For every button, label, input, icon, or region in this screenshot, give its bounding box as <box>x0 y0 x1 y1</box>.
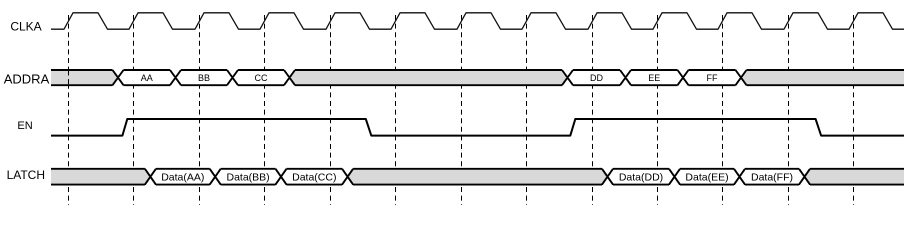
bus LATCH segment 8 (gray) fill <box>805 169 904 185</box>
bus ADDRA segment 7 (FF) fill <box>683 70 741 85</box>
gridline t11 <box>722 15 724 205</box>
bus LATCH segment 0 (gray) fill <box>51 169 150 185</box>
bus ADDRA outline <box>51 70 904 85</box>
bus LATCH segment 6 (Data(EE)) fill <box>675 169 740 185</box>
gridline t6 <box>395 15 397 205</box>
bus ADDRA segment 3 (CC) fill <box>233 70 290 85</box>
bus ADDRA segment 0 (gray) fill <box>51 70 118 85</box>
gridline t2 <box>133 15 135 205</box>
svg-text:EE: EE <box>648 73 660 83</box>
gridline t7 <box>461 15 463 205</box>
svg-text:ADDRA: ADDRA <box>4 71 50 86</box>
gridline t1 <box>68 15 70 205</box>
svg-text:AA: AA <box>141 73 153 83</box>
svg-text:Data(EE): Data(EE) <box>685 171 728 183</box>
svg-text:Data(AA): Data(AA) <box>161 171 204 183</box>
bus ADDRA segment 6 (EE) fill <box>626 70 684 85</box>
svg-text:CC: CC <box>255 73 268 83</box>
svg-text:Data(DD): Data(DD) <box>619 171 663 183</box>
gridline t13 <box>853 15 855 205</box>
gridline t8 <box>526 15 528 205</box>
svg-text:DD: DD <box>590 73 603 83</box>
gridline t12 <box>788 15 790 205</box>
svg-text:EN: EN <box>17 120 32 132</box>
svg-text:Data(FF): Data(FF) <box>751 171 793 183</box>
bus LATCH segment 1 (Data(AA)) fill <box>150 169 215 185</box>
waveform EN <box>51 119 904 136</box>
gridline t4 <box>264 15 266 205</box>
bus LATCH segment 7 (Data(FF)) fill <box>740 169 805 185</box>
bus ADDRA segment 8 (gray) fill <box>741 70 904 85</box>
bus LATCH segment 2 (Data(BB)) fill <box>215 169 281 185</box>
waveform CLKA clock <box>51 13 904 29</box>
gridline t5 <box>330 15 332 205</box>
gridline t10 <box>657 15 659 205</box>
svg-text:LATCH: LATCH <box>7 168 45 182</box>
bus ADDRA segment 5 (DD) fill <box>568 70 626 85</box>
gridline t9 <box>592 15 594 205</box>
bus LATCH segment 4 (gray) fill <box>348 169 608 185</box>
svg-text:FF: FF <box>707 73 718 83</box>
bus LATCH segment 3 (Data(CC)) fill <box>281 169 348 185</box>
bus ADDRA segment 4 (gray) fill <box>290 70 568 85</box>
gridline t1 fragment over ADDRA bus <box>68 71 70 85</box>
gridline t3 <box>199 15 201 205</box>
svg-text:Data(CC): Data(CC) <box>292 171 336 183</box>
bus ADDRA segment 1 (AA) fill <box>118 70 176 85</box>
bus LATCH segment 5 (Data(DD)) fill <box>608 169 675 185</box>
bus LATCH outline <box>51 169 904 185</box>
svg-text:CLKA: CLKA <box>10 20 41 34</box>
bus ADDRA segment 2 (BB) fill <box>176 70 233 85</box>
svg-text:BB: BB <box>198 73 210 83</box>
svg-text:Data(BB): Data(BB) <box>227 171 270 183</box>
